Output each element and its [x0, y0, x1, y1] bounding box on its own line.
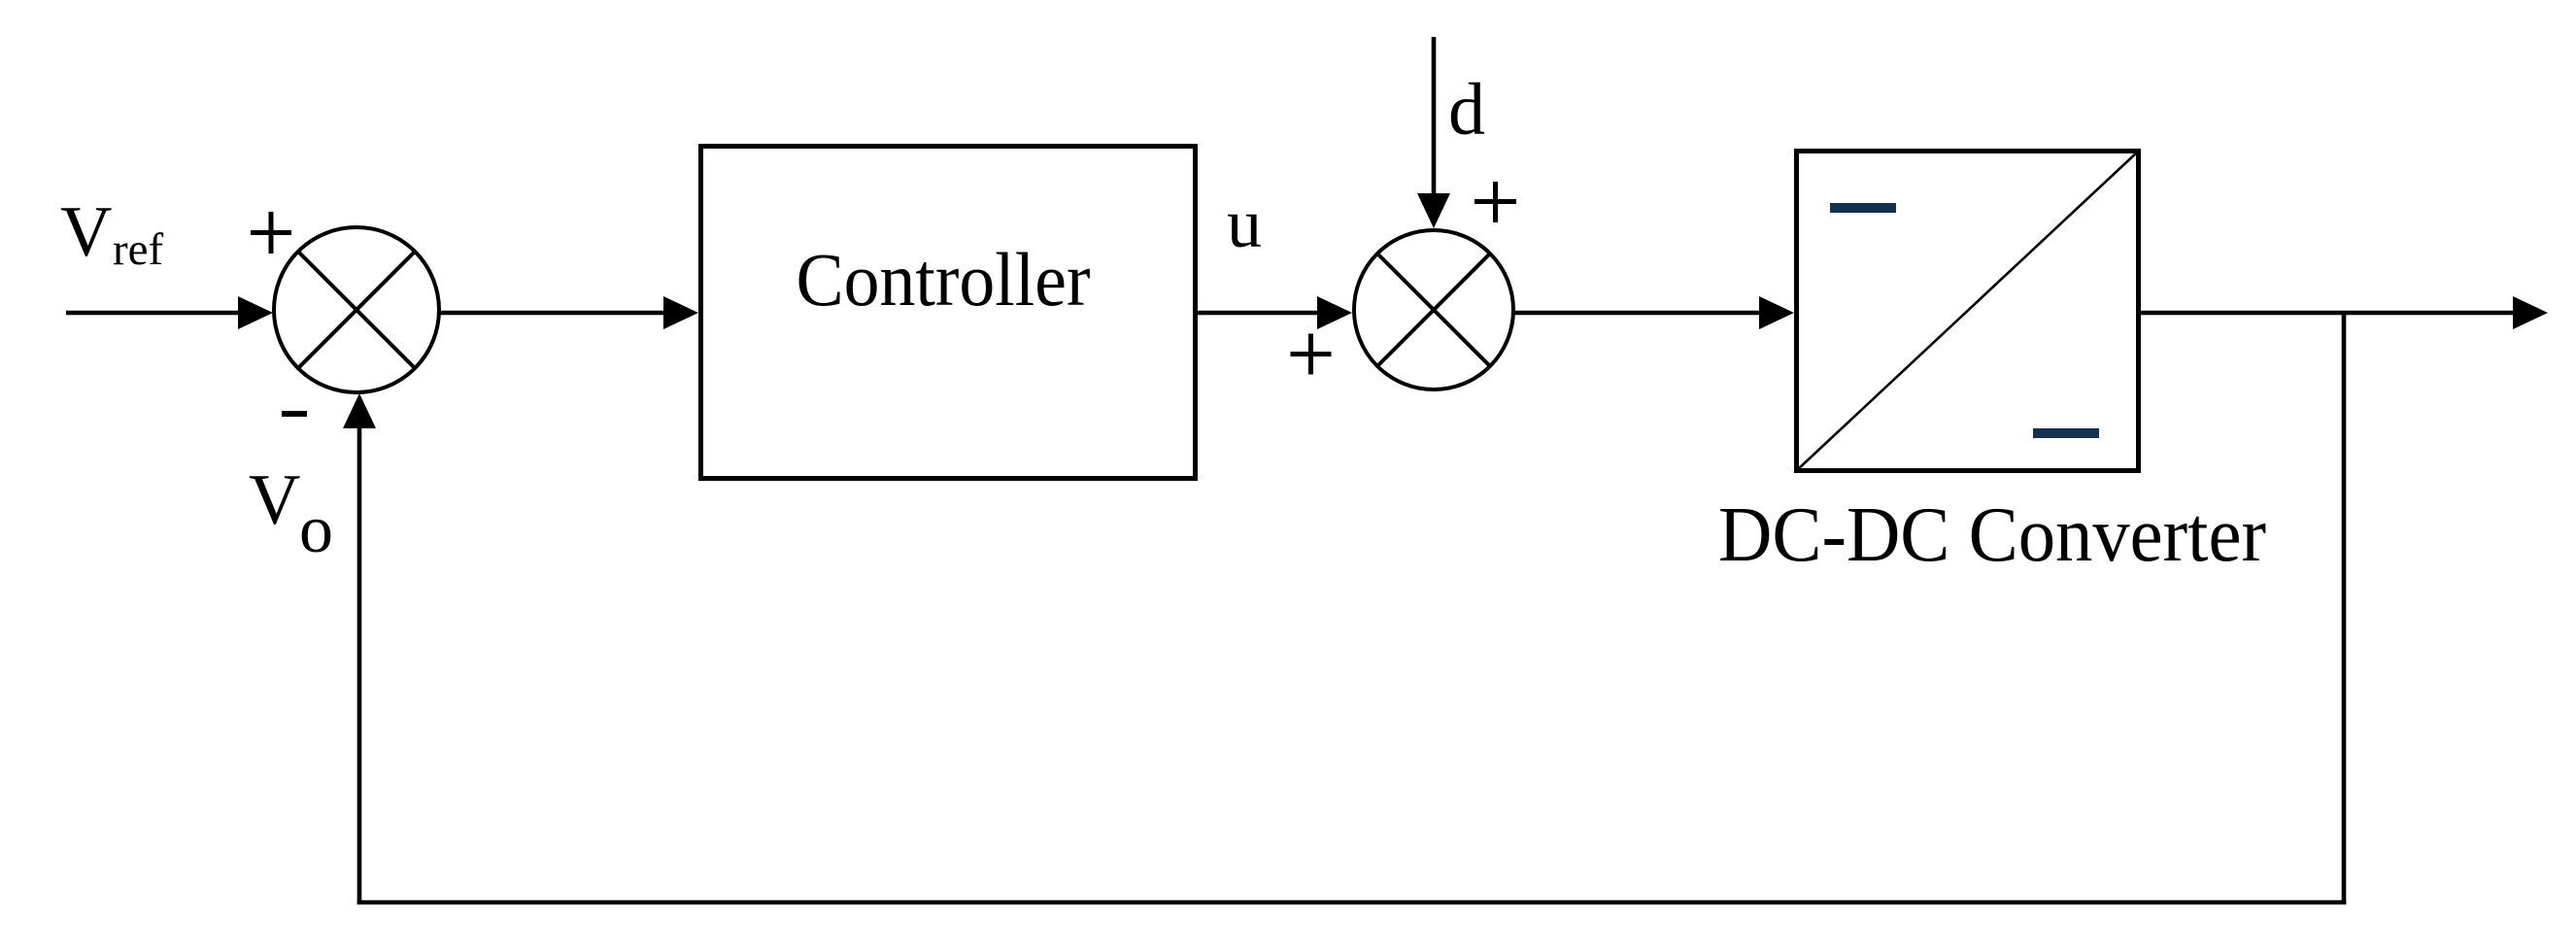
wire: Controller to S2: [1198, 311, 1319, 316]
summing junction S2: [1354, 230, 1513, 390]
summing junction S1: [274, 227, 439, 392]
DC bar top-left: [1830, 203, 1896, 213]
label Vref: [60, 192, 164, 275]
arrowhead into summing junction S2: [1317, 296, 1352, 329]
svg-text:ref: ref: [113, 224, 164, 275]
svg-text:d: d: [1448, 69, 1485, 151]
svg-text:DC-DC Converter: DC-DC Converter: [1718, 492, 2266, 578]
plus sign at S2 left input: [1291, 334, 1332, 375]
wire: S1 to Controller: [439, 311, 666, 316]
plus sign at S1 input: [251, 212, 291, 254]
diagonal of DC-DC converter block: [1797, 152, 2138, 470]
wire: S2 to DC-DC converter: [1513, 311, 1761, 316]
arrowhead of d into S2: [1417, 193, 1450, 228]
plus sign at S2 top input: [1474, 182, 1516, 222]
arrowhead feedback into S1: [343, 393, 376, 428]
svg-text:u: u: [1227, 185, 1262, 262]
wire: feedback left vertical: [357, 426, 362, 904]
svg-text:o: o: [299, 492, 333, 567]
minus sign at S1 feedback input: [282, 411, 307, 417]
wire: DC-DC converter output: [2141, 311, 2516, 316]
wire: feedback right vertical: [2342, 313, 2347, 904]
svg-text:V: V: [60, 192, 112, 272]
wire: feedback bottom horizontal: [357, 900, 2347, 905]
svg-text:Controller: Controller: [797, 237, 1091, 322]
block Controller: [701, 147, 1196, 479]
arrowhead into Controller: [663, 296, 698, 329]
wire: disturbance d input: [1432, 37, 1437, 195]
wire: Vref input: [66, 311, 243, 316]
DC bar bottom-right: [2033, 428, 2099, 438]
arrowhead into DC-DC converter: [1759, 296, 1794, 329]
svg-text:V: V: [249, 460, 300, 540]
arrowhead output: [2513, 296, 2548, 329]
block DC-DC converter: [1797, 152, 2139, 471]
arrowhead into summing junction S1: [238, 296, 273, 329]
label Vo: [249, 460, 333, 567]
